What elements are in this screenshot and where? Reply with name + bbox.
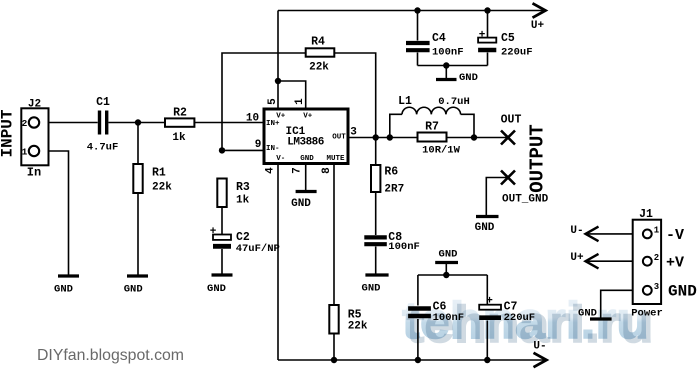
junction node IN-: [219, 147, 225, 153]
resistor R6: [371, 165, 380, 192]
value 22k R1: [152, 182, 172, 194]
label GND above C6C7: [439, 249, 458, 261]
pin number 7: [292, 167, 304, 174]
value 220uF C5: [501, 47, 533, 59]
wire gnd stub above C6C7: [445, 263, 447, 275]
ground symbol C2: [212, 273, 233, 276]
wire top V+ rail: [278, 10, 543, 12]
svg-text:GND: GND: [459, 72, 478, 84]
label GND J2 input: [54, 284, 73, 296]
label IC1: [285, 126, 305, 138]
label R3: [236, 181, 250, 194]
connector J2 body: [21, 108, 48, 165]
ground symbol J1 pin3: [590, 317, 612, 320]
svg-text:tehnari.ru: tehnari.ru: [402, 292, 649, 350]
svg-text:J1: J1: [639, 208, 653, 221]
ground symbol above C6C7: [435, 261, 458, 264]
svg-text:22k: 22k: [309, 62, 329, 74]
label C6: [433, 301, 447, 314]
svg-text:R4: R4: [311, 36, 325, 49]
wire C1 to IC pin 10: [109, 122, 265, 124]
pin number 3 J1: [654, 282, 659, 292]
wire R6 zobel branch: [375, 138, 377, 274]
svg-text:OUTPUT: OUTPUT: [527, 124, 549, 192]
capacitor C4: [406, 43, 430, 50]
value 0.7uH: [438, 96, 470, 108]
label In: [27, 166, 41, 180]
svg-text:R6: R6: [384, 166, 398, 179]
label C8: [388, 231, 402, 244]
label U+ J1: [570, 252, 584, 264]
wire J1 pin3 to ground: [601, 290, 643, 317]
wire R3 C2 branch: [221, 207, 223, 274]
resistor R7: [418, 133, 447, 142]
ground symbol C8: [365, 273, 388, 276]
svg-text:DIYfan.blogspot.com: DIYfan.blogspot.com: [37, 347, 184, 364]
label GND C2: [207, 283, 226, 295]
junction node L1 left: [387, 134, 393, 140]
svg-text:4: 4: [265, 167, 277, 174]
label U- bottom: [533, 341, 546, 353]
resistor R1: [133, 164, 142, 193]
svg-text:U+: U+: [531, 20, 545, 32]
junction node C6 rail: [415, 357, 421, 363]
wire C6 branch: [417, 275, 419, 360]
svg-text:5: 5: [267, 98, 279, 105]
resistor R5: [329, 305, 338, 334]
label R2: [173, 107, 187, 120]
svg-text:1: 1: [294, 98, 306, 105]
svg-text:100nF: 100nF: [388, 241, 420, 253]
svg-text:R1: R1: [152, 167, 166, 180]
capacitor C1: [100, 111, 107, 135]
arrowhead U+ at J1 pin2: [586, 254, 599, 269]
svg-text:2: 2: [22, 118, 28, 129]
svg-text:10R/1W: 10R/1W: [422, 145, 461, 157]
svg-text:+V: +V: [666, 255, 684, 272]
svg-text:J2: J2: [28, 99, 41, 111]
arrowhead V- bottom: [534, 353, 547, 367]
pin number 8: [321, 167, 333, 174]
svg-text:10: 10: [246, 113, 259, 125]
svg-text:GND: GND: [124, 284, 143, 296]
label OUT_GND: [502, 194, 549, 206]
ground symbol R1: [127, 274, 148, 277]
svg-text:V+: V+: [303, 113, 313, 121]
label GND C4C5: [459, 72, 478, 84]
pin number 9: [255, 139, 262, 151]
pin number 3: [350, 127, 357, 139]
svg-text:1: 1: [654, 226, 660, 236]
wire C7 branch: [486, 275, 488, 360]
wire J2 pin1 to ground: [39, 151, 69, 275]
label DIYfan.blogspot.com: [37, 347, 184, 364]
IC pin label IN-: [266, 145, 280, 153]
wire C4 branch: [417, 11, 419, 66]
svg-text:U+: U+: [570, 252, 584, 264]
wire bottom V- rail: [278, 359, 545, 361]
svg-text:100nF: 100nF: [432, 47, 464, 59]
label GND pin7: [291, 198, 311, 210]
svg-text:47uF/NP: 47uF/NP: [236, 243, 280, 255]
value 22k R4: [309, 62, 329, 74]
svg-text:22k: 22k: [348, 321, 368, 333]
connector J1 pin 3 circle: [643, 286, 652, 295]
pin number 1 IC: [294, 98, 306, 105]
svg-text:-V: -V: [666, 227, 684, 244]
label C1: [96, 96, 110, 109]
value 1k R3: [236, 195, 250, 207]
junction node R5 rail: [331, 357, 337, 363]
connector J1 pin 1 circle: [643, 230, 652, 239]
pin number 2 J1: [654, 253, 659, 263]
junction node C4C5 gnd: [443, 62, 449, 68]
IC pin label IN+: [266, 120, 280, 128]
svg-text:GND: GND: [54, 284, 73, 296]
label R1: [152, 167, 166, 180]
label GND R1: [124, 284, 143, 296]
svg-text:GND: GND: [207, 283, 226, 295]
label GND J1 right: [668, 283, 697, 301]
svg-text:INPUT: INPUT: [0, 109, 17, 157]
value 1k R2: [172, 132, 186, 144]
label R6: [384, 166, 398, 179]
IC pin label V+ right: [303, 113, 313, 121]
svg-text:IN+: IN+: [266, 120, 280, 128]
resistor R2: [165, 118, 194, 126]
capacitor C6: [408, 309, 431, 317]
wire vertical from top rail to IC pin 5: [277, 11, 279, 110]
pin number 4: [265, 167, 277, 174]
svg-text:22k: 22k: [152, 182, 172, 194]
label GND C8: [362, 283, 381, 295]
pin number 2 J2: [22, 118, 28, 129]
svg-text:V-: V-: [276, 155, 285, 163]
label GND out terminal: [475, 222, 495, 234]
plus sign C7: [486, 296, 493, 308]
junction node pin5/pin1: [275, 78, 281, 84]
junction node C4 top: [414, 7, 420, 13]
wire J1 pin1 to U- arrow: [586, 233, 643, 235]
label C7: [504, 301, 518, 314]
junction node C7 rail: [484, 357, 490, 363]
svg-text:1k: 1k: [236, 195, 250, 207]
label U- J1: [570, 225, 583, 237]
svg-text:GND: GND: [668, 283, 697, 301]
label L1: [398, 95, 412, 108]
junction node output R6: [373, 134, 379, 140]
svg-text:LM3886: LM3886: [287, 137, 324, 149]
svg-text:+: +: [479, 30, 486, 42]
label Power: [631, 308, 663, 320]
value 4.7uF: [87, 142, 119, 154]
inductor L1: [402, 107, 461, 114]
pin number 10: [246, 113, 259, 125]
svg-text:GND: GND: [362, 283, 381, 295]
svg-text:2R7: 2R7: [384, 184, 404, 196]
wire C4 C5 bottom link: [418, 65, 488, 67]
svg-text:U-: U-: [570, 225, 583, 237]
wire IC pin3 output line: [348, 137, 508, 139]
capacitor C2 polarized: [213, 235, 231, 247]
label C4: [432, 32, 446, 45]
svg-text:+: +: [210, 226, 217, 238]
junction node L1 right: [471, 134, 477, 140]
output terminal X OUT_GND: [501, 171, 515, 185]
wire IC pin8 mute to R5: [333, 164, 335, 361]
label R7: [425, 121, 439, 134]
wire from R4 right down to output node: [334, 53, 376, 138]
IC pin label MUTE: [326, 155, 345, 163]
wire jog from node to IC pin 1: [278, 81, 306, 109]
op-amp IC1 LM3886 body: [264, 109, 348, 164]
svg-text:9: 9: [255, 139, 262, 151]
ground symbol OUT_GND: [476, 215, 499, 218]
arrowhead V+ top: [533, 3, 546, 17]
value 100nF C6: [433, 312, 465, 324]
svg-text:7: 7: [292, 167, 304, 174]
wire C6 C7 top link: [418, 274, 487, 276]
label -V: [666, 227, 684, 244]
pin number 1 J2: [22, 147, 28, 158]
IC pin label V+ left: [276, 113, 286, 121]
label C5: [501, 32, 515, 45]
plus sign C2: [210, 226, 217, 238]
label R5: [348, 309, 362, 322]
svg-text:MUTE: MUTE: [326, 155, 345, 163]
IC pin label GND: [300, 155, 314, 163]
wire gnd stub C4C5: [445, 66, 447, 79]
svg-text:C4: C4: [432, 32, 446, 45]
label OUT terminal: [501, 114, 522, 127]
capacitor C5 polarized: [478, 38, 496, 50]
value 47uF/NP: [236, 243, 280, 255]
junction node C1-R2-R1: [135, 119, 141, 125]
label +V: [666, 255, 684, 272]
label J2: [28, 99, 41, 111]
svg-text:3: 3: [654, 282, 659, 292]
junction node C6C7 gnd: [443, 272, 449, 278]
connector J1 pin 2 circle: [643, 257, 652, 266]
label OUTPUT: [527, 124, 549, 192]
resistor R4: [306, 48, 335, 56]
ground symbol C4C5: [436, 78, 457, 81]
IC pin label OUT: [332, 133, 346, 141]
svg-text:1k: 1k: [172, 132, 186, 144]
wire IN- node to IC pin 9: [222, 149, 264, 151]
svg-text:L1: L1: [398, 95, 412, 108]
svg-text:4.7uF: 4.7uF: [87, 142, 119, 154]
svg-text:OUT_GND: OUT_GND: [502, 194, 549, 206]
svg-text:IN-: IN-: [266, 145, 280, 153]
ground symbol J2 input: [58, 274, 79, 277]
wire IC pin4 down to V- rail: [277, 164, 279, 361]
wire C5 branch: [487, 11, 489, 66]
label J1: [639, 208, 653, 221]
plus sign C5: [479, 30, 486, 42]
svg-text:2: 2: [654, 253, 659, 263]
svg-text:OUT: OUT: [332, 133, 346, 141]
wire J1 pin2 to U+ arrow: [586, 260, 643, 262]
value 2R7: [384, 184, 404, 196]
label C2: [236, 231, 250, 244]
value 100nF C4: [432, 47, 464, 59]
label GND J1 pin3: [578, 308, 597, 320]
svg-text:R2: R2: [173, 107, 187, 120]
svg-text:8: 8: [321, 167, 333, 174]
svg-text:3: 3: [350, 127, 357, 139]
svg-text:R7: R7: [425, 121, 439, 134]
IC pin label V-: [276, 155, 285, 163]
connector J2 pin 2 circle: [29, 117, 39, 127]
connector J1 body: [633, 220, 661, 304]
wire R1 branch down to ground: [137, 123, 139, 275]
wire feedback from IN- node up and right to R4: [222, 53, 306, 150]
label LM3886: [287, 137, 324, 149]
junction node C5 top: [484, 7, 490, 13]
value 100nF C8: [388, 241, 420, 253]
svg-text:GND: GND: [439, 249, 458, 261]
svg-text:OUT: OUT: [501, 114, 522, 127]
svg-text:In: In: [27, 166, 41, 180]
label INPUT: [0, 109, 17, 157]
wire J2 pin2 to C1: [39, 122, 98, 124]
svg-text:C5: C5: [501, 32, 515, 45]
wire L1 parallel loop: [390, 114, 474, 137]
label R4: [311, 36, 325, 49]
svg-text:GND: GND: [291, 198, 311, 210]
value 22k R5: [348, 321, 368, 333]
resistor R3: [217, 179, 226, 208]
pin number 1 J1: [654, 226, 660, 236]
svg-text:220uF: 220uF: [501, 47, 533, 59]
output terminal X OUT: [501, 131, 515, 145]
svg-text:GND: GND: [475, 222, 495, 234]
capacitor C8: [364, 237, 387, 244]
svg-text:GND: GND: [300, 155, 314, 163]
label U+: [531, 20, 545, 32]
ground symbol IC pin7: [296, 190, 317, 193]
pin number 5: [267, 98, 279, 105]
svg-text:0.7uH: 0.7uH: [438, 96, 470, 108]
wire OUT_GND stub: [486, 178, 508, 216]
svg-text:C1: C1: [96, 96, 110, 109]
capacitor C7 polarized: [479, 305, 501, 318]
connector J2 pin 1 circle: [29, 146, 39, 156]
svg-text:R3: R3: [236, 181, 250, 194]
wire IC pin7 to ground: [305, 164, 307, 191]
svg-text:1: 1: [22, 147, 28, 158]
arrowhead U- at J1 pin1: [586, 227, 599, 242]
value 10R/1W: [422, 145, 461, 157]
value 220uF C7: [504, 312, 536, 324]
